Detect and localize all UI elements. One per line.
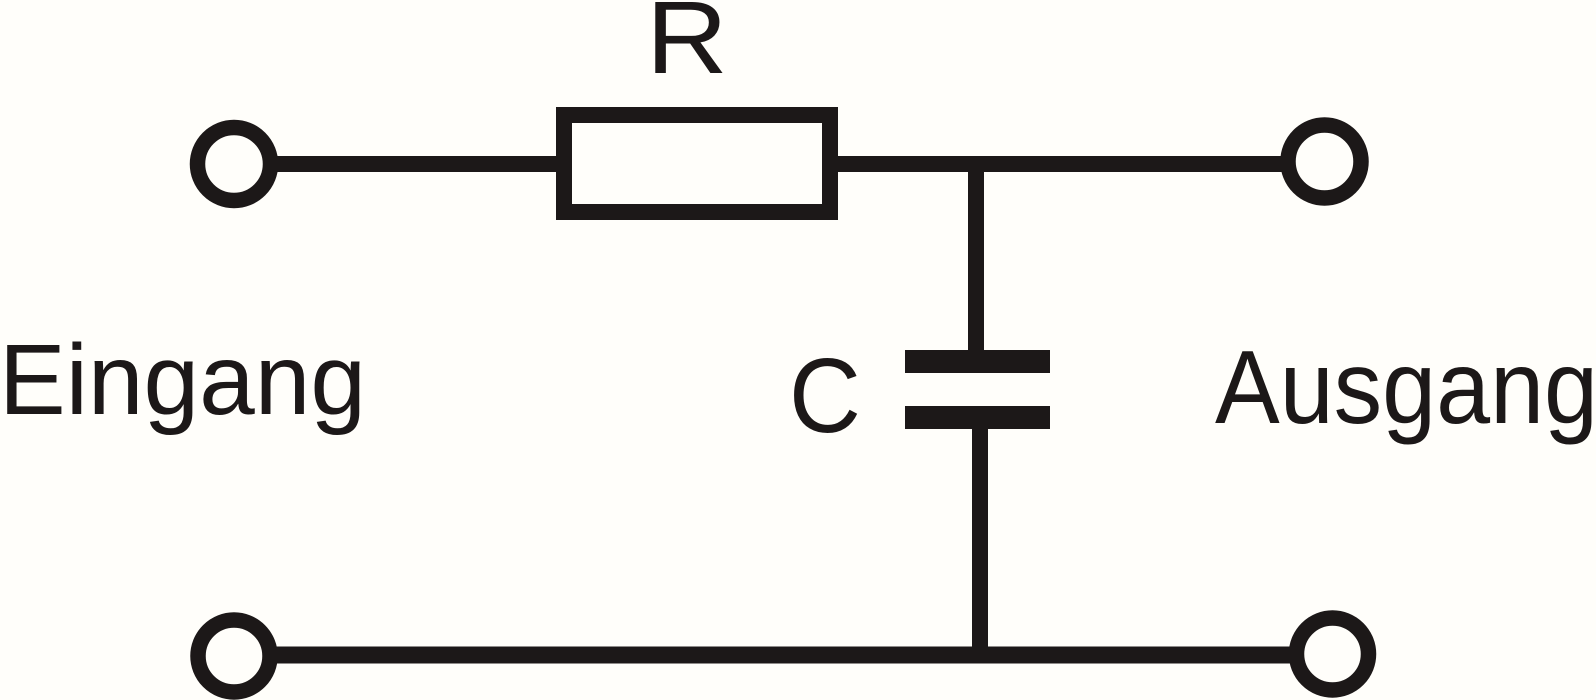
svg-text:R: R (646, 0, 728, 95)
svg-text:C: C (789, 336, 861, 455)
svg-text:Eingang: Eingang (0, 324, 366, 436)
svg-text:Ausgang: Ausgang (1215, 330, 1596, 446)
